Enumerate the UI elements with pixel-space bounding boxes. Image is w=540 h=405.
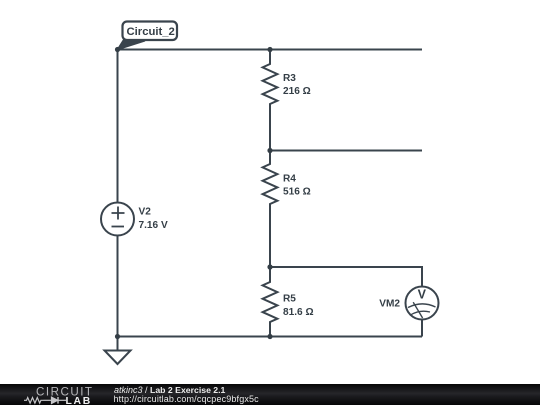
circuitlab logo bbox=[20, 384, 112, 405]
svg-text:216 Ω: 216 Ω bbox=[283, 86, 311, 97]
wire left vertical from node A to V2 top bbox=[117, 50, 119, 203]
svg-text:Circuit_2: Circuit_2 bbox=[127, 26, 175, 38]
node C dot bbox=[267, 264, 272, 269]
svg-text:7.16 V: 7.16 V bbox=[139, 220, 168, 231]
voltmeter VM2 bbox=[406, 287, 439, 337]
node top of R3 dot bbox=[267, 47, 272, 52]
wire bottom horizontal net bbox=[118, 336, 423, 338]
resistor R3 bbox=[263, 50, 278, 119]
resistor R5 bbox=[263, 267, 278, 337]
node bottom of R5 dot bbox=[267, 334, 272, 339]
footer bar bbox=[0, 384, 540, 405]
wire V2 bottom to ground node bbox=[117, 236, 119, 337]
wire R4 to node C bbox=[269, 218, 271, 267]
node A dot bbox=[115, 47, 120, 52]
ground node dot bbox=[115, 334, 120, 339]
ground bbox=[105, 337, 131, 365]
resistor R4 bbox=[263, 151, 278, 219]
wire R3 to node B bbox=[269, 118, 271, 151]
svg-text:R5: R5 bbox=[283, 294, 296, 305]
wire top horizontal net bbox=[118, 49, 423, 51]
svg-text:LAB: LAB bbox=[66, 396, 92, 405]
svg-text:516 Ω: 516 Ω bbox=[283, 187, 311, 198]
svg-text:R4: R4 bbox=[283, 174, 296, 185]
voltage source V2 bbox=[101, 203, 134, 236]
svg-text:V: V bbox=[418, 288, 427, 302]
svg-text:81.6 Ω: 81.6 Ω bbox=[283, 307, 314, 318]
flag Circuit_2 bbox=[118, 22, 178, 50]
node B dot bbox=[267, 148, 272, 153]
svg-text:V2: V2 bbox=[139, 207, 152, 218]
wire middle horizontal net bbox=[270, 150, 422, 152]
wire third horizontal net to voltmeter bbox=[270, 267, 422, 287]
svg-text:VM2: VM2 bbox=[379, 299, 400, 310]
footer text bbox=[114, 386, 225, 395]
svg-text:R3: R3 bbox=[283, 73, 296, 84]
